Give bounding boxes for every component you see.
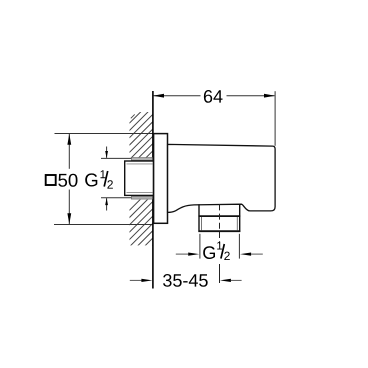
dim square50: top arrow [67,134,71,145]
dim 35-45: right tail [231,279,242,281]
dim square50: bottom arrow [67,213,71,224]
dim G1/2 left: extension line bottom [101,197,132,199]
label 50 [58,174,77,187]
square symbol [46,175,56,185]
outlet centerline (lower segment) [219,264,221,283]
dim 64: line left segment [154,95,201,97]
outlet bottom edge thick [198,230,240,232]
outlet stub right edge [239,204,241,232]
escutcheon plate [154,134,168,224]
outlet thread root left [201,217,203,230]
dim G1/2 bottom: extension line left [199,234,201,259]
dim 64: label [204,90,223,103]
hatch fragment top-left [131,114,135,118]
dim square50: vertical line lower segment [68,190,70,225]
dim extension line top (square 50, y=133.5) [55,133,153,135]
label G1/2 bottom [203,242,230,260]
dim G1/2 bottom: left tail [176,253,188,255]
dim 64: right arrow [264,94,275,98]
dim G1/2 bottom: right arrow head [240,253,251,256]
dim G1/2 bottom: right tail [251,253,263,255]
outlet thread root right [236,217,238,230]
dim 64: right extension line [274,91,276,146]
inlet stub G1/2 body [125,161,154,195]
wall face line [152,91,154,289]
inlet thread crest band top [131,158,152,161]
dim G1/2 left: bottom arrow tail [106,198,108,210]
inlet thread root line top [127,163,153,165]
dim G1/2 bottom: extension line right [238,234,240,259]
body outline [168,144,276,212]
outlet centerline (dashed, upper) [219,204,221,243]
dim 35-45: right arrow head [220,279,231,282]
inlet thread root line bottom [127,192,153,194]
dim 64: line right segment [227,95,275,97]
dim G1/2 left: top arrow head [105,151,108,158]
label G1/2 left [85,170,113,188]
wall hatching (top section) [126,99,154,185]
dim extension line bottom (square 50, y=224.5) [54,224,153,226]
outlet thread shoulder [198,215,240,217]
inlet thread crest band bottom [131,196,152,199]
dim G1/2 left: extension line top [101,157,132,159]
label 35-45 [163,274,208,287]
dim 35-45: left tail [130,279,142,281]
dim G1/2 left: bottom arrow head [105,198,108,205]
dim square50: vertical line upper segment [68,134,70,169]
dim G1/2 bottom: left arrow head [188,253,199,256]
wall hatching (bottom section) [126,186,154,272]
dim G1/2 left: top arrow tail [106,147,108,158]
outlet stub left edge [198,204,200,232]
dim 35-45: left arrow head [141,279,152,282]
dim 64: left arrow [153,94,164,98]
